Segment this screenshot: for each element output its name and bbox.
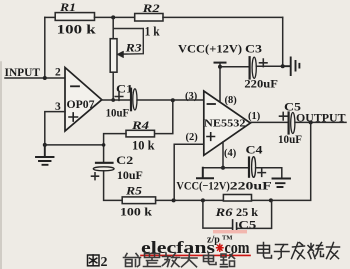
svg-text:10uF: 10uF [117,168,143,182]
NE5532 minus sign [208,103,216,105]
capacitor C4 [248,158,250,177]
svg-text:100 k: 100 k [57,23,96,37]
capacitor C5 parallel small [233,220,237,230]
node C5 parallel left junction [201,198,205,202]
wire top rail right segment [163,16,283,18]
caption 前置放大电路 hand-drawn glyphs [124,253,235,267]
svg-text:10uF: 10uF [278,134,302,146]
char 友 [327,243,340,260]
wire ground junction to C2 node [45,144,104,146]
R3 wiper arrowhead [117,51,124,58]
C4 plus sign [258,169,265,176]
svg-text:VCC(+12V): VCC(+12V) [178,41,242,55]
svg-text:100 k: 100 k [120,205,152,219]
svg-text:1 k: 1 k [145,25,160,39]
watermark pink smudge [213,230,247,233]
capacitor C1 [130,89,132,111]
node ground junction [43,143,47,147]
wire pin4 node to VCC- stub [203,167,223,169]
wire NE5532 pin 1 to C5 [250,121,287,123]
node C2 top junction [102,143,106,147]
svg-text:2: 2 [101,255,108,269]
svg-text:C2: C2 [116,153,133,167]
capacitor C5 [288,113,290,134]
wire NE5532 pin 2 [174,144,204,200]
wire C1 to NE5532 pin 3 [137,99,204,101]
char 子 [275,245,290,260]
VCC+ supply terminal bar [215,62,226,64]
watermark 电子发烧友 hand-drawn glyphs [258,243,340,260]
wire C2 bottom to R5 [104,171,123,201]
wire R3 top connection [112,17,114,38]
svg-text:(2): (2) [186,132,199,143]
op-amp U2 NE5532 triangle [204,91,251,155]
svg-text:C4: C4 [246,142,263,156]
svg-text:com: com [225,238,250,257]
char 前 [124,254,141,267]
wire VCC+ to pin 8 [219,63,221,102]
wire OP07 output to C1 [102,99,130,101]
node C1-R4 junction [171,98,175,102]
wire input vertical to R1 [44,17,46,78]
char 发 [292,243,305,260]
resistor R4 [126,130,155,137]
node input junction [43,76,47,80]
char 烧 [308,243,324,259]
svg-text:C3: C3 [245,42,262,56]
ground sideways right of C3 [283,58,300,76]
capacitor C2 [96,162,113,164]
wire top rail mid segment [95,16,135,18]
wire R5 to R6 rail [156,199,224,201]
svg-text:R5: R5 [125,184,142,198]
node pin2 rail junction [172,198,176,202]
C1 plus sign [115,93,123,101]
node R3-output junction [111,98,115,102]
op-amp minus sign [71,85,79,87]
wire VCC+ node to C3 [220,66,248,68]
node junction R1-R2-R3 [111,15,115,19]
wire pin4 node to C4 [223,167,248,169]
resistor R5 [122,197,155,204]
char 电 [204,253,217,265]
svg-text:220uF: 220uF [230,178,272,192]
wire R3 wiper loop [113,29,143,55]
svg-text:R2: R2 [141,1,159,15]
node output feedback junction [309,120,313,124]
char 置 [144,254,161,267]
wire C4 to ground [256,168,282,177]
svg-text:220uF: 220uF [244,77,278,91]
ground symbol below OP07 [36,145,54,165]
svg-text:R3: R3 [124,40,141,54]
scan edge artifact left [0,62,2,269]
char 放 [163,253,180,267]
capacitor C3 [249,57,251,78]
svg-text:(8): (8) [225,95,238,106]
resistor R2 [135,14,163,22]
char 电 [258,243,272,259]
watermark logo star [217,244,223,251]
svg-text:2: 2 [55,67,61,79]
wire feedback drop from output [252,122,311,200]
wire C5 parallel loop right [238,200,272,228]
C3 plus sign [260,59,268,67]
wire op-amp pin 3 [45,112,65,145]
potentiometer R3 body [110,39,117,72]
ground symbol right of C4 [273,179,291,188]
wire right drop to C3 node [282,17,284,66]
svg-text:OP07: OP07 [67,99,95,111]
VCC- supply terminal bar [197,168,213,179]
svg-text:NE5532: NE5532 [204,118,246,130]
node R6 right junction [269,198,273,202]
svg-text:C5: C5 [238,217,256,231]
wire INPUT to op-amp pin 2 [5,77,65,79]
op-amp U1 OP07 triangle [65,68,102,132]
resistor R6 [223,195,251,202]
svg-text:(3): (3) [185,91,198,102]
watermark red underline [141,254,250,256]
caption label 图2 [88,255,100,266]
C5 plus sign [280,112,288,120]
wire top rail left segment [45,16,55,18]
svg-text:R4: R4 [131,118,149,132]
wire C5 to output end [295,121,346,123]
svg-text:10 k: 10 k [132,139,155,153]
wire NE5532 pin 4 [222,142,224,168]
svg-text:10uF: 10uF [106,108,130,120]
char 大 [182,253,198,267]
char 路 [221,254,235,267]
svg-text:(1): (1) [248,111,261,122]
op-amp plus sign [69,113,78,121]
node pin 4 junction [221,166,225,170]
wire C5 parallel loop left [203,200,232,228]
C2 plus sign [92,173,99,180]
wire C3 to ground node [256,65,282,67]
svg-text:C5: C5 [284,100,301,114]
svg-text:VCC(−12V): VCC(−12V) [176,178,230,192]
NE5532 plus sign [207,133,215,141]
node C3 ground junction [281,64,285,68]
svg-text:R1: R1 [59,0,76,14]
node VCC+ junction [218,65,222,69]
svg-text:(4): (4) [224,148,237,159]
wire R4 left to C2 node [104,134,126,162]
resistor R1 [55,13,94,21]
wire R3 bottom to output node [112,72,114,100]
svg-text:R6: R6 [214,205,232,219]
wire R4 right branch [155,100,173,133]
